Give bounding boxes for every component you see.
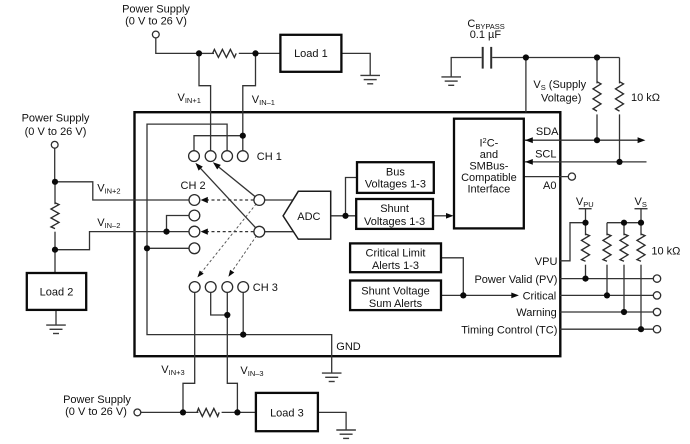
svg-text:I2C-: I2C-: [479, 136, 498, 150]
wire: Critical pin external line: [560, 294, 653, 296]
wire: CH2 pin 4 to internal bus: [147, 247, 189, 249]
wire: A0 pin line to terminal: [524, 176, 568, 178]
arrowhead: mux to CH1 pin 2: [213, 162, 221, 169]
arrowhead: SDA bus right: [638, 137, 646, 143]
wire: VIN+1 from R1 left node into IC to CH1 pin 2: [199, 53, 211, 151]
wire: Critical Limit Alerts output jog: [441, 258, 463, 296]
terminal: Timing Control output: [653, 326, 660, 333]
arrowhead: mux to CH1 pin 1: [195, 163, 202, 171]
svg-text:Interface: Interface: [467, 183, 510, 195]
mux input circles: [254, 195, 265, 238]
svg-text:10 kΩ: 10 kΩ: [631, 92, 660, 104]
arrowhead: mux to CH3 pin 3 (thin): [228, 270, 234, 277]
supply bar VPU: [579, 208, 592, 210]
wire: R2 top lead: [54, 182, 56, 204]
wire: CH3 pin 2 jog: [211, 292, 228, 315]
svg-text:GND: GND: [336, 341, 361, 353]
wire: VPU pin jog to pull-up rail: [560, 223, 586, 261]
wire: VIN-1 from R1 right node into IC to CH1 pin 4: [243, 53, 256, 151]
resistor R2 (shunt, channel 2, vertical): [51, 203, 59, 229]
wire: R3 right lead to Load 3: [222, 411, 257, 413]
wire: RQ1 top lead: [585, 223, 587, 236]
terminal: power supply 1: [152, 31, 159, 38]
svg-text:Load 2: Load 2: [40, 286, 74, 298]
wire: power supply 1 to shunt resistor R1: [156, 38, 199, 54]
wire: Load 3 to ground: [318, 412, 346, 430]
wire: RP1 bottom lead to SDA: [596, 114, 598, 140]
terminal: Warning output: [653, 308, 660, 315]
box: Critical Limit Alerts 1-3: [350, 243, 441, 272]
wire: Timing Control (TC) external line: [560, 328, 653, 330]
resistor RQ1 (10 kOhm, PV pull-up): [582, 234, 590, 261]
wire: CH3 pin 4 to GND bus: [242, 292, 244, 335]
wire: bypass capacitor left plate to ground: [451, 58, 481, 77]
mux select arrow: thin dashed diagonal to CH3 pin 1: [202, 200, 260, 272]
svg-text:Timing Control (TC): Timing Control (TC): [461, 324, 557, 336]
terminal: power supply 2: [51, 141, 58, 148]
svg-text:Warning: Warning: [516, 307, 557, 319]
wire: RQ2 bottom lead: [606, 265, 608, 296]
wire: VIN+2 jog into IC to CH2 pin 1: [55, 182, 189, 200]
wire: VPU bar stem: [585, 209, 587, 223]
wire: internal bus vertical, top loop to CH1 pin 3: [147, 124, 227, 248]
ADC block (pentagon): [283, 191, 331, 239]
arrowhead: mux to CH3 pin 1 (thin): [197, 271, 203, 278]
svg-text:10 kΩ: 10 kΩ: [651, 245, 680, 257]
svg-text:Load 1: Load 1: [294, 48, 328, 60]
svg-text:VPU: VPU: [535, 256, 558, 268]
mux select arrow: dashed to CH2 pin 1: [207, 199, 259, 201]
svg-text:(0 V to 26 V): (0 V to 26 V): [65, 406, 127, 418]
wire: RQ2 top lead: [606, 223, 608, 236]
CH2 pin circles: [189, 195, 200, 254]
mux select arrow: thin dashed diagonal to CH3 pin 3: [232, 232, 259, 271]
wire: supply 2 node down to Load 2: [54, 250, 56, 274]
svg-text:(0 V to 26 V): (0 V to 26 V): [25, 126, 87, 138]
wire: pull-up resistor RP1 top lead: [596, 58, 598, 84]
resistor RP2 (10 kOhm pull-up, SCL): [616, 82, 624, 111]
svg-text:SCL: SCL: [535, 148, 556, 160]
svg-text:Power Supply: Power Supply: [22, 112, 90, 124]
resistor RQ4 (10 kOhm, TC pull-up): [637, 234, 645, 261]
svg-text:Power Supply: Power Supply: [63, 394, 131, 406]
svg-text:Alerts 1-3: Alerts 1-3: [372, 260, 419, 272]
wire: RQ4 bottom lead: [640, 265, 642, 330]
svg-text:Voltages 1-3: Voltages 1-3: [365, 179, 426, 191]
svg-text:A0: A0: [543, 180, 556, 192]
supply bar VS (right): [635, 208, 648, 210]
wire: Shunt Voltage Sum Alerts output to Critical arrow: [441, 294, 512, 296]
mux select arrow: dashed to CH2 pin 3: [207, 231, 259, 233]
svg-text:CH 1: CH 1: [257, 151, 282, 163]
ground: Load 3: [336, 430, 356, 438]
capacitor CBYPASS plates: [483, 47, 492, 69]
wire: Power Valid (PV) external line: [560, 278, 653, 280]
wire: RQ3 top lead: [623, 223, 625, 236]
wire: mux output 2 to ADC: [259, 231, 296, 233]
wire: R1 right lead to Load 1: [239, 52, 282, 54]
box: Load 1: [280, 35, 341, 72]
svg-text:Voltages 1-3: Voltages 1-3: [364, 216, 425, 228]
wire: RQ1 bottom lead: [585, 265, 587, 279]
svg-text:Critical: Critical: [523, 291, 557, 303]
box: Shunt Voltages 1-3: [356, 199, 433, 229]
wire: Load 2 to ground: [55, 310, 57, 325]
wire: SDA bus line: [525, 139, 639, 141]
wire: power supply 3 to shunt R3: [141, 411, 199, 413]
box: Bus Voltages 1-3: [357, 162, 434, 193]
wire: Warning external line: [560, 311, 653, 313]
terminal: Critical output: [653, 292, 660, 299]
arrowhead: mux to CH2 pin 1: [201, 197, 208, 203]
wire: RP2 bottom lead to SCL: [619, 114, 621, 161]
CH3 pin circles: [189, 282, 248, 293]
svg-text:Power Supply: Power Supply: [122, 3, 190, 15]
arrowhead: Shunt Voltages into I2C block: [446, 213, 454, 219]
svg-text:Shunt Voltage: Shunt Voltage: [361, 285, 430, 297]
wire: internal bus down to GND pin: [147, 248, 332, 373]
wire: mux output 1 to ADC: [259, 199, 296, 201]
mux select arrow: solid to CH1 pin 1: [201, 169, 260, 232]
box: Shunt Voltage Sum Alerts: [350, 281, 441, 311]
CH1 pin circles: [189, 151, 249, 162]
wire: power supply 2 down to VIN+2 node: [54, 148, 56, 182]
arrowhead: SDA into I2C block: [525, 137, 533, 143]
box: I2C and SMBus Compatible Interface: [454, 119, 524, 229]
svg-text:Bus: Bus: [386, 166, 405, 178]
terminal: power supply 3: [134, 409, 141, 416]
wire: CH3 pin 1 down out of IC, VIN+3: [183, 292, 195, 412]
mux select arrow: solid to CH1 pin 2: [219, 167, 259, 200]
svg-text:Sum Alerts: Sum Alerts: [369, 298, 423, 310]
svg-text:(0 V to 26 V): (0 V to 26 V): [125, 15, 187, 27]
box: Load 3: [256, 393, 318, 431]
wire: VS supply drop into IC top (VS pin): [525, 58, 527, 113]
arrowhead: SCL into I2C block: [525, 159, 533, 165]
wire: VIN-2 jog into IC to CH2 pin 3: [55, 232, 189, 250]
wire: pull-up resistor RP2 top lead: [619, 58, 621, 84]
ground: Load 2: [46, 325, 66, 333]
svg-text:ADC: ADC: [297, 211, 320, 223]
resistor RP1 (10 kOhm pull-up, SDA): [593, 82, 601, 111]
wire: R2 bottom lead: [54, 232, 56, 250]
wire: CH3 pin 3 down out of IC, VIN-3: [227, 292, 237, 412]
wire: RQ3 bottom lead: [623, 265, 625, 312]
terminal: Power Valid output: [653, 275, 660, 282]
wire: RQ4 top lead: [640, 223, 642, 236]
arrowhead: Critical signal: [511, 293, 519, 299]
terminal: A0: [568, 173, 575, 180]
svg-text:CH 2: CH 2: [181, 180, 206, 192]
wire: branch up to Bus Voltages block: [346, 178, 360, 216]
svg-text:Load 3: Load 3: [270, 407, 304, 419]
svg-text:Voltage): Voltage): [541, 92, 581, 104]
resistor R3 (shunt, channel 3): [197, 408, 219, 416]
arrowhead: mux to CH2 pin 3: [201, 229, 208, 235]
ground: GND pin below IC: [322, 373, 342, 381]
ground: bypass capacitor: [441, 77, 461, 85]
wire: VS bar stem and rail: [607, 209, 641, 223]
wire: VIN-1 branch to CH1 pin 1: [194, 136, 243, 152]
svg-text:Power Valid (PV): Power Valid (PV): [474, 274, 557, 286]
svg-text:SDA: SDA: [536, 126, 559, 138]
IC U1 outline (INA3221 main block): [135, 112, 561, 356]
wire: SCL bus line: [525, 161, 647, 163]
wire: ADC output to measurement blocks: [320, 215, 357, 217]
wire: Load 1 to ground: [341, 53, 370, 75]
resistor R1 (shunt, channel 1): [213, 49, 237, 57]
svg-text:Critical Limit: Critical Limit: [366, 248, 426, 260]
wire: R1 left lead: [199, 52, 214, 54]
box: Load 2: [27, 273, 86, 310]
svg-text:Compatible: Compatible: [461, 172, 517, 184]
svg-text:and: and: [480, 149, 498, 161]
wire: capacitor right plate to VS node and pull-up rail: [492, 57, 619, 59]
wire: CH2 pin 2 jog to VIN-2 line: [167, 216, 190, 232]
ground: Load 1: [360, 75, 380, 83]
svg-text:CH 3: CH 3: [253, 282, 278, 294]
wire: Shunt Voltages block to I2C interface: [433, 215, 447, 217]
resistor RQ3 (10 kOhm, Warning pull-up): [620, 234, 628, 261]
resistor RQ2 (10 kOhm, Critical pull-up): [603, 234, 611, 261]
svg-text:Shunt: Shunt: [380, 203, 409, 215]
svg-text:SMBus-: SMBus-: [469, 161, 508, 173]
svg-text:0.1 µF: 0.1 µF: [470, 29, 502, 41]
